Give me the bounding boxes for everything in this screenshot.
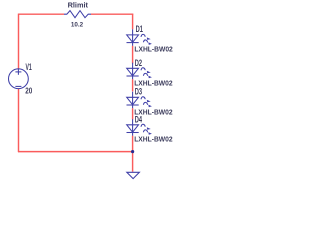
junction node dot <box>131 150 134 153</box>
LED D1 <box>127 29 148 46</box>
resistor Rlimit <box>64 11 91 18</box>
diode lead <box>132 29 134 46</box>
LED D4 <box>127 119 148 136</box>
diode lead <box>132 92 134 109</box>
wire bottom horizontal <box>18 151 133 153</box>
svg-text:D1: D1 <box>136 24 143 34</box>
svg-text:20: 20 <box>25 87 32 96</box>
svg-text:D2: D2 <box>135 58 142 68</box>
wire left vertical upper <box>18 14 20 69</box>
diode lead <box>132 119 134 136</box>
svg-text:LXHL-BW02: LXHL-BW02 <box>134 44 172 53</box>
svg-text:LXHL-BW02: LXHL-BW02 <box>134 134 172 143</box>
wire right vertical seg1 <box>132 14 134 30</box>
svg-text:D4: D4 <box>135 115 142 125</box>
wire right vertical seg4 <box>132 108 134 119</box>
wire right vertical seg5 to ground <box>132 136 134 172</box>
svg-text:Rlimit: Rlimit <box>68 1 89 10</box>
ground <box>127 172 140 178</box>
svg-text:V1: V1 <box>26 62 32 72</box>
wire right vertical seg2 <box>132 46 134 64</box>
wire top left horizontal <box>18 13 64 15</box>
voltage source V1 <box>9 69 29 89</box>
LED D3 <box>127 92 148 109</box>
LED D2 <box>127 63 148 79</box>
wire left vertical lower <box>18 89 20 152</box>
wire top right horizontal <box>91 13 133 15</box>
wire right vertical seg3 <box>132 79 134 91</box>
svg-text:10.2: 10.2 <box>71 22 83 29</box>
svg-text:D3: D3 <box>135 86 142 96</box>
diode lead <box>132 63 134 79</box>
